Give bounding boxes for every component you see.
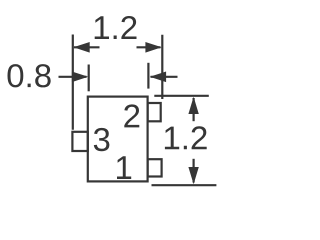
arrowhead 0.8 left bbox=[72, 72, 88, 83]
extension line left (top 1.2 dim) bbox=[72, 35, 74, 130]
dimension line 0.8 left segment bbox=[59, 76, 87, 78]
pin number 2 bbox=[124, 104, 139, 127]
dimension line top-right segment bbox=[137, 46, 161, 48]
arrowhead right 1.2 up bbox=[188, 97, 198, 114]
dim text 0.8 left bbox=[8, 64, 51, 87]
extension line right (top 1.2 dim) bbox=[161, 35, 163, 99]
arrowhead top 1.2 right bbox=[145, 42, 161, 53]
extension line bottom (right 1.2 dim) bbox=[152, 184, 217, 186]
arrowhead 0.8 right bbox=[150, 72, 166, 83]
dimension line top-left segment bbox=[74, 46, 100, 48]
dimension line right vertical upper segment bbox=[193, 98, 195, 121]
dimension line 0.8 right segment bbox=[151, 76, 178, 78]
package body outline bbox=[88, 97, 148, 182]
dimension line right vertical lower segment bbox=[193, 159, 195, 183]
pin 3 pad bbox=[72, 132, 87, 151]
pin number 1 bbox=[117, 156, 131, 179]
extension line top (right 1.2 dim) bbox=[154, 95, 209, 97]
pin 2 pad bbox=[148, 103, 161, 121]
pin 1 pad bbox=[148, 159, 162, 176]
dim text 1.2 top bbox=[95, 16, 137, 39]
dim text 1.2 right bbox=[165, 126, 207, 149]
arrowhead right 1.2 down bbox=[188, 167, 198, 184]
extension line right (0.8 dim) bbox=[147, 63, 149, 89]
pin number 3 bbox=[94, 128, 110, 151]
extension line left (0.8 dim) bbox=[88, 65, 90, 92]
arrowhead top 1.2 left bbox=[73, 42, 89, 53]
